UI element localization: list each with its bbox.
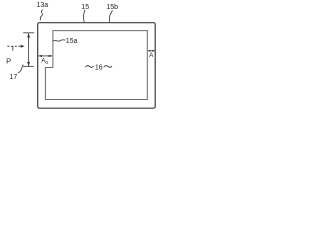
svg-text:16: 16 (95, 64, 103, 71)
svg-text:17: 17 (10, 74, 18, 81)
leader 17 (18, 65, 24, 73)
dimension A0 (left margin width) (39, 55, 53, 57)
leader 15b (109, 10, 112, 22)
dimension A (right margin width) (148, 50, 155, 52)
leader 15 (83, 10, 85, 22)
arrow P (dashed) (7, 45, 20, 47)
leader 15a (53, 40, 65, 42)
svg-text:13a: 13a (36, 2, 48, 9)
svg-text:15a: 15a (66, 38, 78, 45)
inner boundary 15 (45, 31, 147, 100)
outer rectangle 13a (38, 23, 156, 109)
dimension line 17 (vertical) (23, 32, 34, 34)
svg-text:15b: 15b (106, 4, 118, 11)
svg-text:P: P (6, 56, 11, 65)
leader 13a (40, 10, 43, 21)
svg-text:15: 15 (81, 4, 89, 11)
